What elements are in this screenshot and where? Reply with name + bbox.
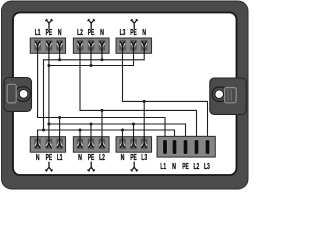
svg-text:L3: L3	[141, 153, 147, 162]
svg-text:N: N	[121, 153, 125, 162]
svg-text:L2: L2	[99, 153, 105, 162]
svg-text:PE: PE	[46, 153, 53, 162]
svg-text:N: N	[172, 161, 176, 171]
svg-text:N: N	[36, 153, 40, 162]
svg-text:N: N	[100, 28, 104, 37]
svg-text:L1: L1	[160, 161, 166, 171]
svg-text:PE: PE	[182, 161, 189, 171]
svg-text:L2: L2	[194, 161, 200, 171]
svg-text:PE: PE	[88, 28, 95, 37]
svg-text:N: N	[78, 153, 82, 162]
svg-text:N: N	[142, 28, 146, 37]
svg-text:PE: PE	[88, 153, 95, 162]
svg-text:L1: L1	[57, 153, 63, 162]
svg-text:N: N	[58, 28, 62, 37]
svg-text:L3: L3	[204, 161, 210, 171]
svg-text:PE: PE	[46, 28, 53, 37]
svg-text:PE: PE	[130, 153, 137, 162]
svg-text:L1: L1	[35, 28, 41, 37]
svg-text:PE: PE	[130, 28, 137, 37]
svg-text:L2: L2	[77, 28, 83, 37]
svg-text:L3: L3	[120, 28, 126, 37]
